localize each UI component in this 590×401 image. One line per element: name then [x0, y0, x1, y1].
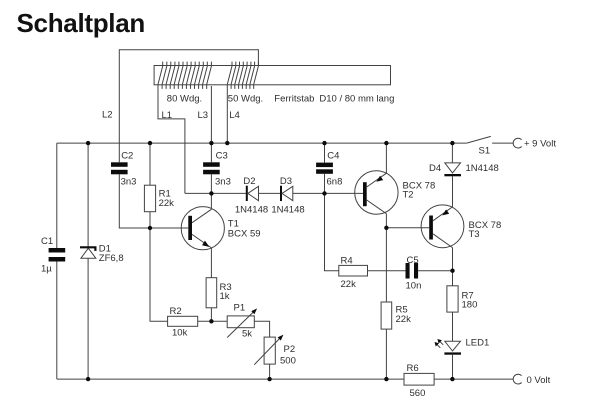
capacitor C4: [316, 143, 342, 193]
inductor L4 winding (50 Wdg.): [227, 62, 258, 89]
svg-text:S1: S1: [479, 146, 491, 157]
svg-text:5k: 5k: [242, 329, 252, 340]
svg-text:6n8: 6n8: [327, 176, 343, 187]
wire C2 to base node: [119, 174, 188, 228]
wire D3 to T2 base: [293, 192, 363, 194]
svg-text:10n: 10n: [406, 281, 422, 292]
diode D4 1N4148: [429, 143, 499, 176]
svg-text:L1: L1: [162, 110, 173, 121]
wire L1 lead: [158, 89, 185, 194]
svg-text:500: 500: [280, 356, 296, 367]
resistor R2 10k: [168, 306, 198, 339]
svg-text:50 Wdg.: 50 Wdg.: [228, 93, 263, 104]
svg-text:C5: C5: [407, 255, 419, 266]
svg-text:C4: C4: [327, 150, 339, 161]
resistor R1 22k: [144, 143, 174, 228]
switch S1: [467, 136, 513, 156]
svg-text:C3: C3: [216, 150, 228, 161]
svg-text:BCX 59: BCX 59: [228, 228, 261, 239]
svg-text:L4: L4: [229, 110, 240, 121]
wire L4 lead: [227, 89, 239, 143]
wire top loop (L2 to winding2 right end): [102, 50, 258, 163]
potentiometer P2 500: [254, 335, 296, 380]
svg-text:P2: P2: [284, 344, 296, 355]
svg-text:1k: 1k: [220, 291, 230, 302]
transistor T1 BCX 59: [181, 193, 260, 277]
wire R2 to P1: [198, 320, 228, 322]
svg-text:1N4148: 1N4148: [466, 163, 499, 174]
wire middle node line (L1/C3/D2): [185, 192, 246, 194]
wire left rail: [56, 143, 58, 379]
svg-text:560: 560: [410, 388, 426, 399]
svg-text:R4: R4: [341, 255, 353, 266]
wire base node down to R2: [150, 228, 168, 321]
svg-text:C1: C1: [41, 236, 53, 247]
LED1: [435, 337, 490, 379]
svg-text:P1: P1: [234, 303, 246, 314]
wire D1 branch: [87, 143, 89, 379]
inductor L1+L3 winding (80 Wdg.): [158, 62, 211, 89]
wire T3 base line: [386, 227, 429, 229]
svg-text:1N4148: 1N4148: [235, 205, 268, 216]
diode D1 zener ZF6,8: [80, 244, 124, 264]
svg-text:22k: 22k: [396, 314, 412, 325]
wire R4 branch: [325, 193, 339, 270]
transistor T2 BCX 78: [355, 143, 436, 302]
svg-text:R2: R2: [170, 306, 182, 317]
svg-text:10k: 10k: [172, 327, 188, 338]
svg-text:L3: L3: [198, 110, 209, 121]
capacitor C1: [41, 236, 65, 274]
resistor R5 22k: [381, 302, 411, 379]
terminal + 9 Volt: [513, 138, 556, 149]
svg-text:80 Wdg.: 80 Wdg.: [167, 93, 202, 104]
svg-text:D3: D3: [280, 176, 292, 187]
node dots: [86, 141, 455, 381]
svg-text:180: 180: [462, 300, 478, 311]
transistor T3 BCX 78: [421, 176, 501, 286]
resistor R3 1k: [206, 278, 232, 322]
wire C3 to collector node: [210, 174, 212, 193]
capacitor C2: [111, 150, 136, 187]
svg-text:0 Volt: 0 Volt: [527, 375, 551, 386]
svg-text:ZF6,8: ZF6,8: [99, 253, 124, 264]
capacitor C3: [203, 150, 231, 187]
svg-text:C2: C2: [121, 150, 133, 161]
svg-text:D4: D4: [429, 163, 441, 174]
svg-text:+ 9 Volt: + 9 Volt: [524, 139, 556, 150]
diode D3 1N4148: [271, 176, 304, 216]
terminal 0 Volt: [513, 374, 550, 386]
svg-text:Ferritstab: Ferritstab: [274, 93, 314, 104]
potentiometer P1 5k: [227, 303, 257, 340]
svg-text:22k: 22k: [159, 198, 175, 209]
svg-text:22k: 22k: [341, 279, 357, 290]
resistor R7 180: [447, 286, 477, 342]
resistor R6 560: [404, 363, 434, 399]
wire top supply bus: [57, 142, 467, 144]
wire P1 to P2: [254, 321, 269, 337]
svg-text:Schaltplan: Schaltplan: [17, 8, 145, 38]
ferrite rod body: [154, 66, 394, 105]
svg-text:1N4148: 1N4148: [271, 205, 304, 216]
diode D2 1N4148: [235, 176, 268, 216]
svg-text:D2: D2: [243, 176, 255, 187]
svg-text:LED1: LED1: [466, 337, 490, 348]
svg-text:L2: L2: [102, 110, 113, 121]
svg-text:3n3: 3n3: [215, 176, 231, 187]
resistor R4 22k: [339, 255, 368, 290]
svg-text:T2: T2: [403, 190, 414, 201]
capacitor C5 10n: [406, 255, 453, 292]
svg-text:T3: T3: [469, 229, 480, 240]
wire R4 to C5: [368, 270, 406, 272]
wire D2 to D3: [259, 192, 281, 194]
wire L3 lead: [198, 86, 212, 162]
wire bottom bus: [57, 378, 513, 380]
svg-text:D10 / 80 mm lang: D10 / 80 mm lang: [319, 93, 394, 104]
svg-text:3n3: 3n3: [121, 176, 137, 187]
winding labels: [167, 93, 263, 104]
svg-text:1µ: 1µ: [41, 263, 52, 274]
svg-text:R6: R6: [407, 363, 419, 374]
